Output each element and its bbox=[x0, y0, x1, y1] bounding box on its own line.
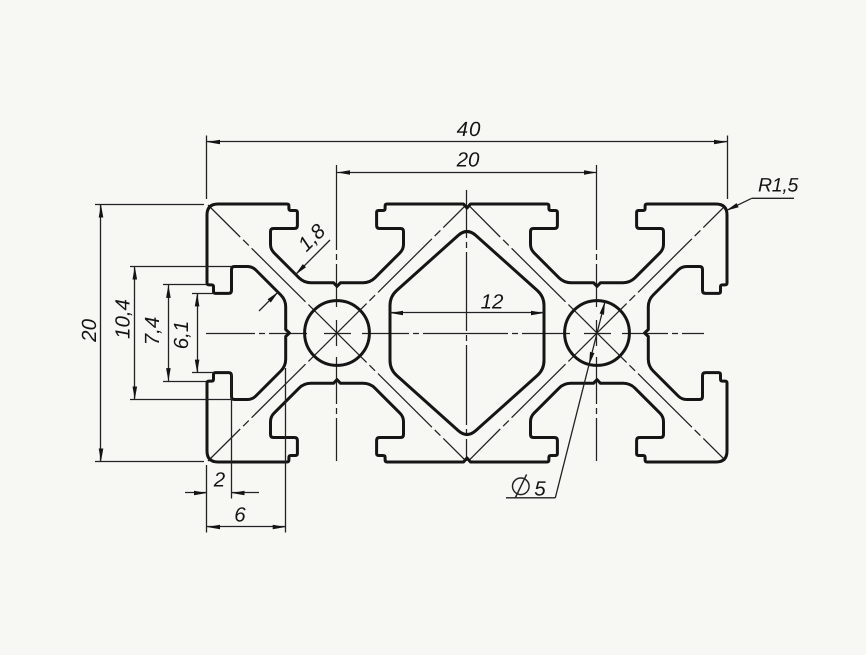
dimension 40 extension lines bbox=[206, 136, 208, 200]
dimension 2 line with outside arrows bbox=[185, 492, 207, 494]
svg-text:20: 20 bbox=[78, 318, 101, 342]
central octagonal cavity bbox=[390, 232, 544, 435]
horizontal centerline bbox=[206, 333, 704, 335]
dimension 40 line bbox=[207, 141, 727, 143]
svg-text:6: 6 bbox=[234, 504, 246, 527]
dimension 2 extension lines bbox=[206, 465, 208, 533]
construction diagonal left square bottom-left to top-right bbox=[208, 206, 465, 461]
vertical centerline left hole bbox=[336, 165, 338, 461]
svg-text:40: 40 bbox=[457, 118, 482, 141]
svg-text:2: 2 bbox=[213, 469, 226, 492]
svg-text:20: 20 bbox=[456, 149, 480, 172]
construction diagonal right square top-left to bottom-right bbox=[468, 205, 725, 460]
svg-text:5: 5 bbox=[534, 478, 546, 501]
vertical centerline right hole bbox=[596, 165, 598, 461]
diameter symbol circle bbox=[513, 478, 530, 495]
svg-text:6,1: 6,1 bbox=[170, 321, 193, 350]
svg-text:10,4: 10,4 bbox=[111, 299, 134, 339]
dimension 6 line bbox=[207, 526, 286, 528]
svg-text:7,4: 7,4 bbox=[141, 317, 164, 346]
dimension 1,8 leader lines at 45deg bbox=[295, 240, 330, 275]
dimension 6 extension line bbox=[285, 368, 287, 533]
right hole circle bbox=[565, 301, 630, 366]
dimension 6,1 line bbox=[197, 294, 199, 373]
svg-text:12: 12 bbox=[481, 291, 504, 314]
dimension 20 top line bbox=[337, 172, 597, 174]
dimension 20 left line bbox=[100, 205, 102, 462]
dimension 7,4 extension lines bbox=[163, 284, 206, 286]
R1,5 leader bbox=[726, 198, 752, 211]
dimension 20 left extension lines bbox=[95, 204, 204, 206]
left hole circle bbox=[305, 301, 370, 366]
dimension 12 line bbox=[390, 312, 544, 314]
extrusion profile outer contour with T-slots bbox=[207, 204, 727, 462]
dimension 6,1 extension lines bbox=[192, 293, 214, 295]
diameter symbol slash bbox=[515, 474, 526, 498]
dimension 7,4 line bbox=[168, 285, 170, 382]
svg-text:R1,5: R1,5 bbox=[758, 175, 798, 197]
dimension 10,4 line bbox=[134, 267, 136, 400]
construction diagonal left square top-left to bottom-right bbox=[208, 205, 465, 460]
diameter 5 leader through right hole bbox=[555, 302, 605, 498]
vertical centerline profile middle bbox=[466, 190, 468, 461]
dimension 10,4 extension lines bbox=[130, 266, 232, 268]
construction diagonal right square bottom-left to top-right bbox=[468, 206, 725, 461]
